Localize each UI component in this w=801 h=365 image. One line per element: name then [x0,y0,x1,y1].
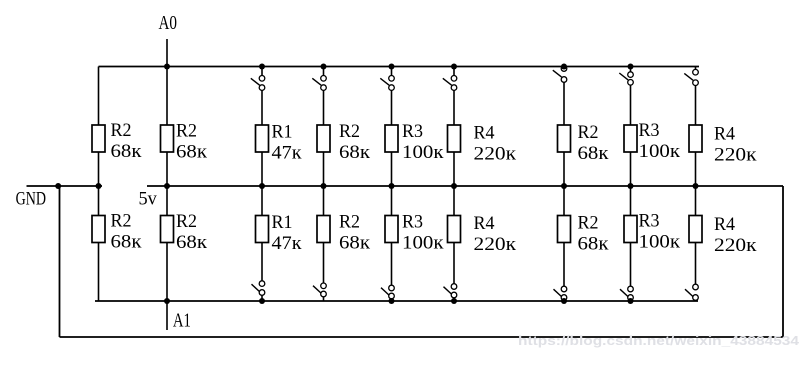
svg-text:R3: R3 [402,212,423,233]
svg-text:68к: 68к [111,141,143,162]
switch S5 bottom [381,243,394,302]
resistor R4 col6 lower [448,216,461,243]
junction col7 top bus [561,64,567,70]
wire top bus A0 net [99,66,700,68]
junction col6 middle bus [451,183,457,189]
wire col2 top [166,67,168,126]
svg-text:68к: 68к [176,232,208,253]
junction col5 top bus [389,64,395,70]
label R3 upper value 100к [639,120,681,162]
label R2 lower value 68к [339,212,371,254]
wire col2 middle [166,152,168,216]
junction col3 bottom bus [259,298,265,304]
svg-text:R2: R2 [339,121,360,142]
resistor R1 col3 upper [256,125,269,152]
wire right border [782,186,784,337]
node A1 label [173,310,191,332]
resistor R2 col4 lower [317,216,330,243]
wire col5 middle [391,152,393,216]
label R4 lower value 220к [474,213,517,255]
junction col7 middle bus [561,183,567,189]
svg-text:100к: 100к [639,232,681,253]
svg-text:68к: 68к [339,142,371,163]
switch S3 top [251,67,265,126]
junction col5 middle bus [389,183,395,189]
switch S9 top [684,67,698,126]
junction col7 bottom bus [561,298,567,304]
resistor R2 col7 upper [558,125,571,152]
svg-text:A1: A1 [173,310,191,332]
wire col1 middle [98,152,100,216]
svg-text:R4: R4 [714,214,735,235]
svg-text:100к: 100к [639,141,681,162]
resistor R2 col1 upper [92,125,105,152]
svg-text:220к: 220к [474,144,517,165]
label R4 upper value 220к [714,124,757,166]
junction col8 top bus [628,64,634,70]
svg-text:47к: 47к [272,143,303,164]
svg-text:R2: R2 [111,120,132,141]
svg-text:220к: 220к [714,145,757,166]
wire bottom rail [60,336,784,338]
svg-text:R2: R2 [578,213,599,234]
resistor R2 col1 lower [92,216,105,243]
label R3 upper value 100к [402,121,444,163]
label R2 upper value 68к [111,120,143,162]
switch S8 bottom [620,243,633,302]
svg-text:100к: 100к [402,142,444,163]
svg-text:100к: 100к [402,233,444,254]
junction col5 bottom bus [389,298,395,304]
label R2 upper value 68к [176,121,208,163]
wire A0 stub [166,39,168,67]
resistor R4 col6 upper [448,125,461,152]
switch S8 top [619,67,633,126]
junction col4 middle bus [321,183,327,189]
switch S3 bottom [252,243,265,302]
svg-text:R4: R4 [714,124,735,145]
svg-text:220к: 220к [714,235,757,256]
watermark [518,334,799,348]
label R2 lower value 68к [578,213,610,255]
svg-text:220к: 220к [474,234,517,255]
svg-text:68к: 68к [111,232,143,253]
resistor R3 col8 lower [624,216,637,243]
svg-text:R2: R2 [578,122,599,143]
svg-text:47к: 47к [272,233,303,254]
junction col1 middle bus [96,183,102,189]
wire col3 middle [261,152,263,216]
svg-text:R4: R4 [474,213,495,234]
label R4 lower value 220к [714,214,757,256]
svg-text:R1: R1 [272,122,293,143]
svg-text:R4: R4 [474,123,495,144]
svg-text:R2: R2 [111,211,132,232]
svg-text:R2: R2 [176,121,197,142]
label R1 lower value 47к [272,212,303,254]
wire A1 stub [166,301,168,330]
svg-text:https://blog.csdn.net/weixin_4: https://blog.csdn.net/weixin_43884534 [518,334,799,348]
svg-text:R2: R2 [339,212,360,233]
svg-text:GND: GND [16,189,46,210]
wire col4 middle [323,152,325,216]
wire col2 bottom [166,243,168,302]
label R1 upper value 47к [272,122,303,164]
junction col8 middle bus [628,183,634,189]
resistor R3 col8 upper [624,125,637,152]
svg-text:5v: 5v [139,189,158,210]
resistor R4 col9 upper [689,125,702,152]
node A0 label [159,12,178,34]
node 5v label [139,189,158,210]
wire middle 5v bus [147,185,783,187]
svg-text:A0: A0 [159,12,178,34]
wire col1 top [98,67,100,126]
label R4 upper value 220к [474,123,517,165]
wire col8 middle [630,152,632,216]
junction col2 middle bus [164,183,170,189]
svg-text:68к: 68к [578,234,610,255]
svg-text:R2: R2 [176,211,197,232]
wire col1 bottom [98,243,100,302]
label R2 lower value 68к [176,211,208,253]
resistor R2 col4 upper [317,125,330,152]
switch S7 top [553,66,567,125]
switch S6 bottom [444,243,457,302]
switch S6 top [443,67,457,126]
junction col9 middle bus [693,183,699,189]
svg-text:68к: 68к [578,143,610,164]
wire col9 middle [695,152,697,216]
resistor R2 col2 lower [161,216,174,243]
wire bottom bus A1 net [95,300,698,302]
svg-text:R1: R1 [272,212,293,233]
junction col4 top bus [321,64,327,70]
switch S4 bottom [313,243,326,302]
svg-text:68к: 68к [176,142,208,163]
resistor R3 col5 lower [385,216,398,243]
junction col6 top bus [451,64,457,70]
resistor R1 col3 lower [256,216,269,243]
wire col7 middle [563,152,565,216]
junction col3 middle bus [259,183,265,189]
label R2 upper value 68к [339,121,371,163]
label R3 lower value 100к [402,212,444,254]
switch S7 bottom [554,243,567,302]
resistor R2 col2 upper [161,125,174,152]
wire GND segment [27,185,103,187]
switch S4 top [312,67,326,126]
switch S9 bottom [685,243,698,302]
wire left border [59,186,61,337]
resistor R4 col9 lower [689,216,702,243]
svg-text:R3: R3 [402,121,423,142]
resistor R3 col5 upper [385,125,398,152]
junction col6 bottom bus [451,298,457,304]
svg-text:R3: R3 [639,211,660,232]
junction col3 top bus [259,64,265,70]
junction col2 top bus [164,64,170,70]
label R3 lower value 100к [639,211,681,253]
svg-text:68к: 68к [339,233,371,254]
junction GND left [55,183,61,189]
label R2 lower value 68к [111,211,143,253]
switch S5 top [380,67,394,126]
node GND label [16,189,46,210]
junction col8 bottom bus [628,298,634,304]
svg-text:R3: R3 [639,120,660,141]
junction col2 bottom bus [164,298,170,304]
label R2 upper value 68к [578,122,610,164]
resistor R2 col7 lower [558,216,571,243]
wire col6 middle [453,152,455,216]
